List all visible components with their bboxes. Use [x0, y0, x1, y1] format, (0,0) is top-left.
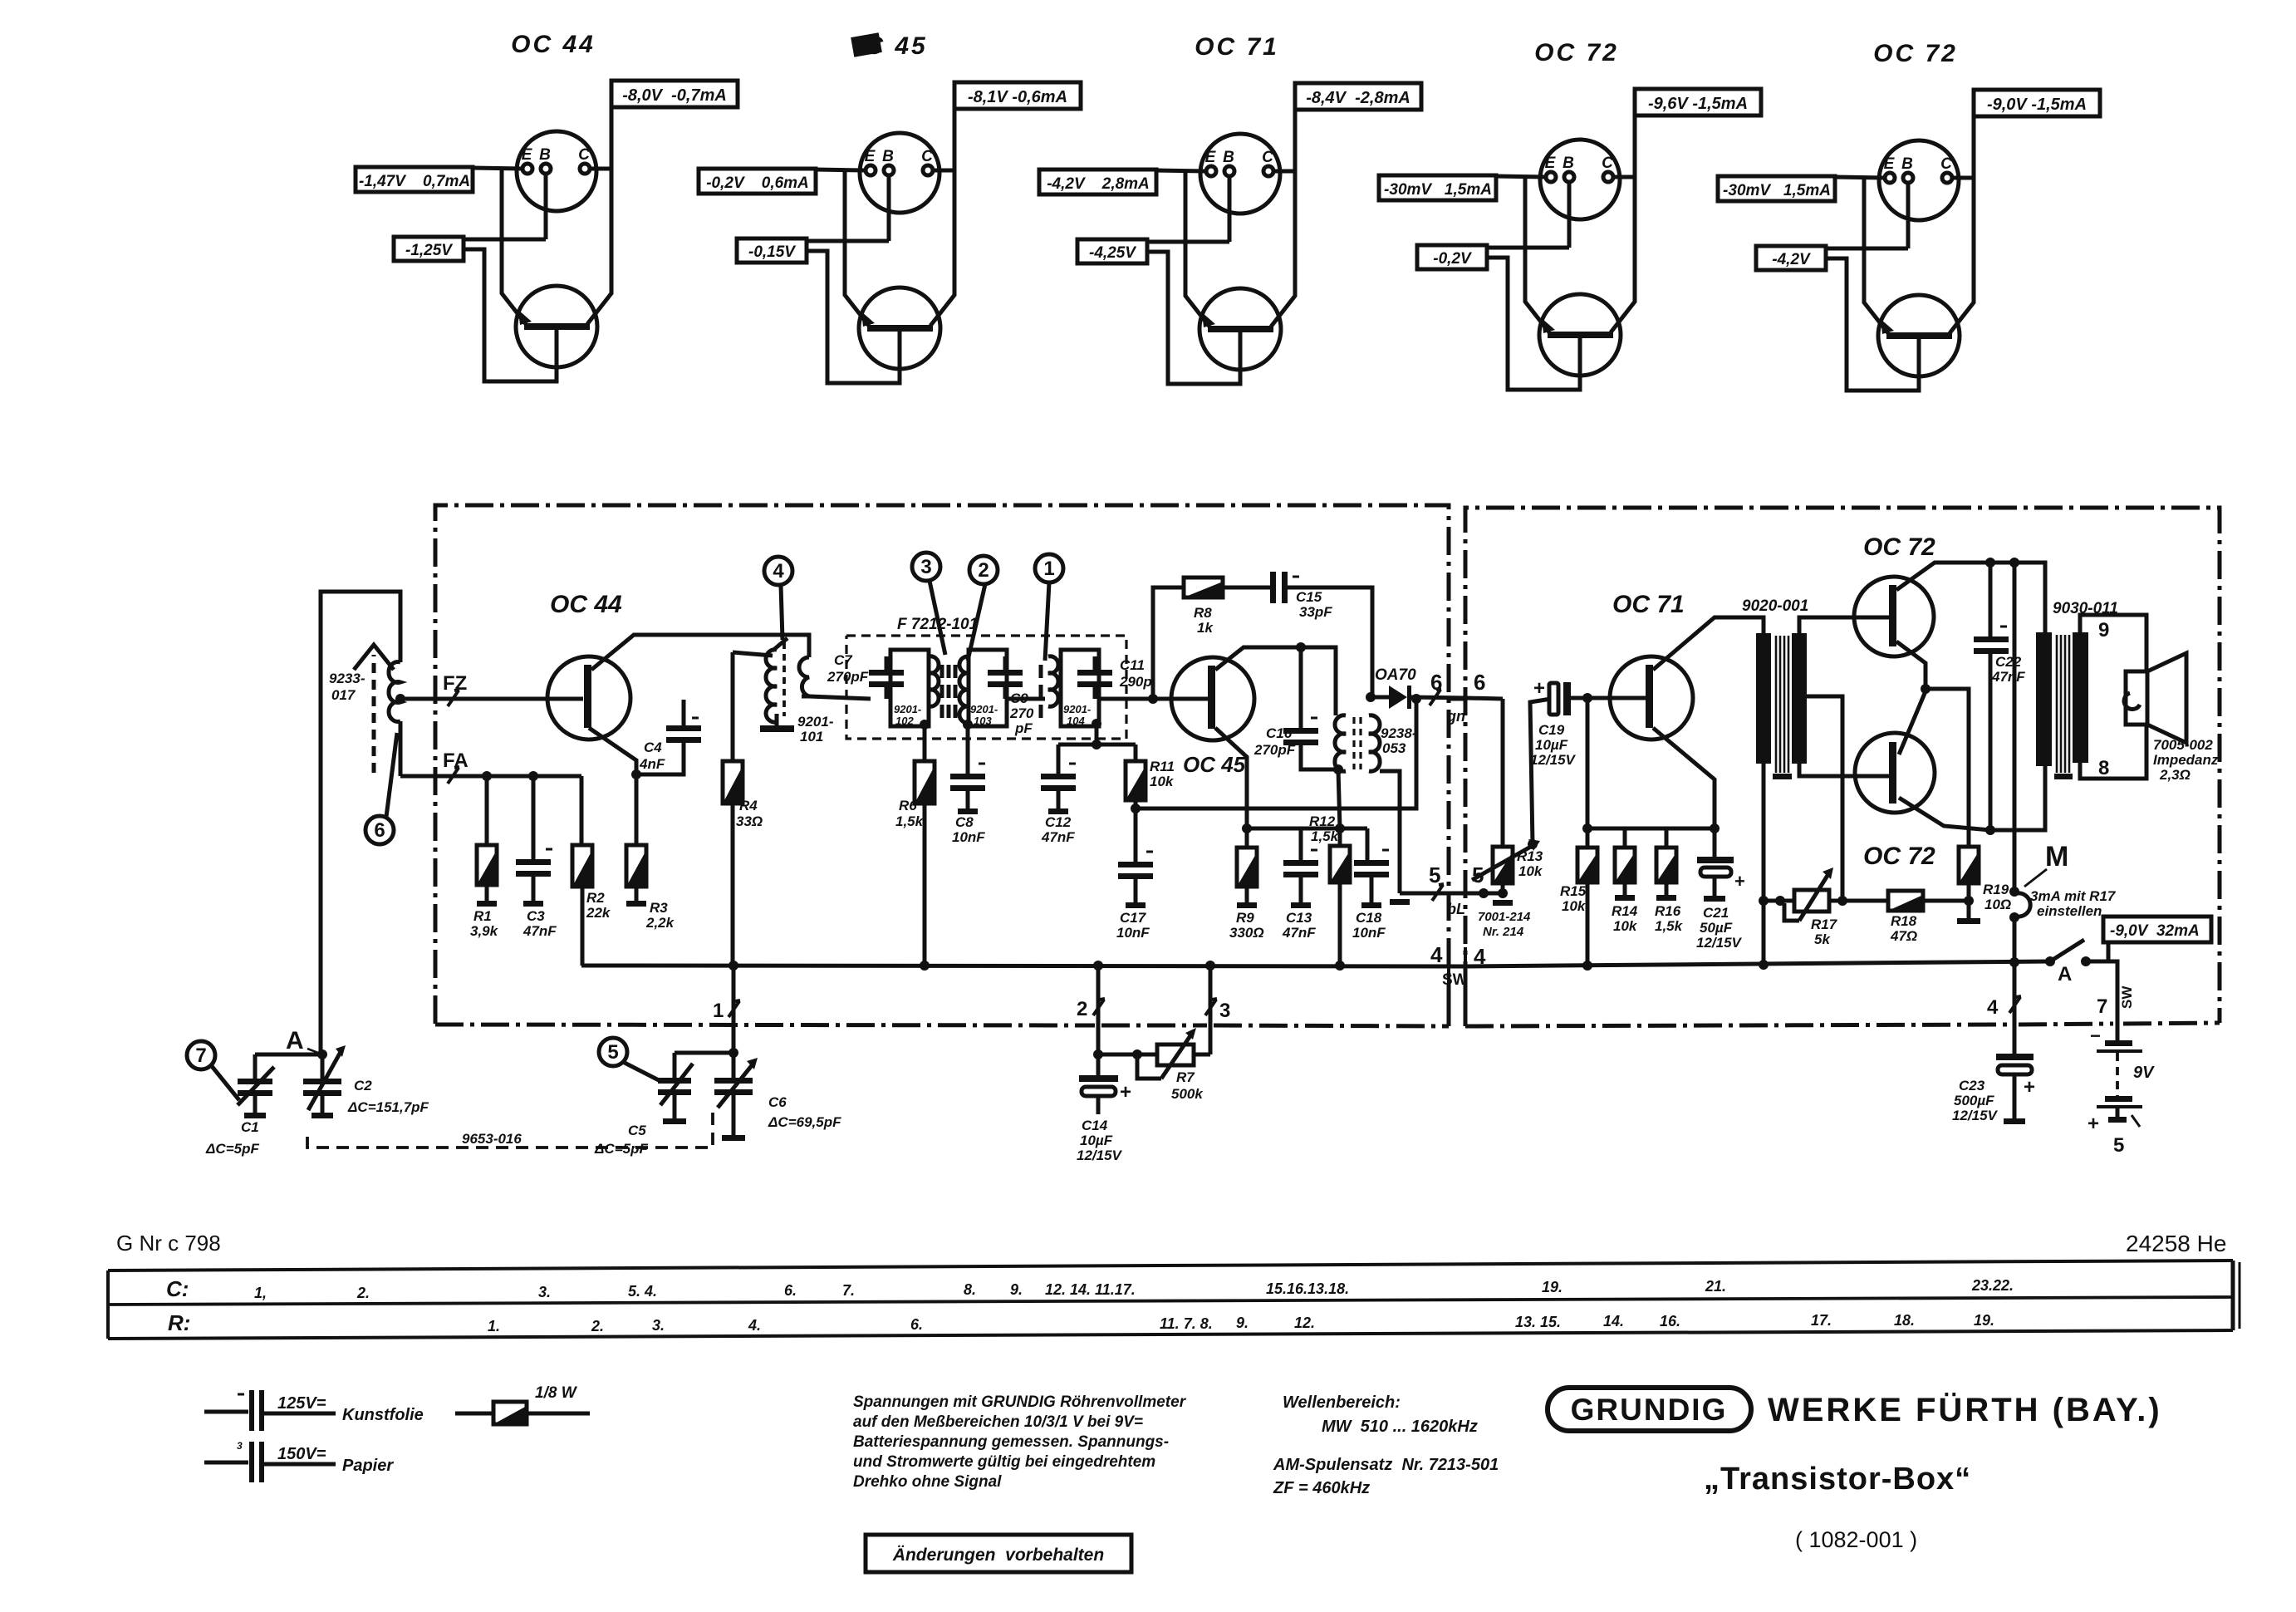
resistor R11 — [1126, 761, 1146, 800]
winding arcs right of core — [959, 656, 969, 723]
capacitor C1 — [238, 1079, 272, 1096]
measurement box -8,4V -2,8mA — [1295, 83, 1421, 110]
OC44 emitter wire — [589, 728, 636, 774]
svg-text:-30mV 1,5mA: -30mV 1,5mA — [1384, 181, 1492, 199]
wire left box to pin E — [816, 170, 866, 170]
svg-text:053: 053 — [1382, 740, 1406, 756]
measurement box -0,2V — [1417, 245, 1487, 269]
svg-text:1.: 1. — [488, 1318, 500, 1334]
svg-text:33pF: 33pF — [1299, 604, 1332, 620]
svg-text:C6: C6 — [768, 1094, 787, 1110]
svg-text:−: − — [2090, 1025, 2101, 1046]
svg-text:R3: R3 — [650, 900, 668, 916]
svg-text:ΔC=69,5pF: ΔC=69,5pF — [768, 1114, 841, 1130]
resistor R18 — [1888, 891, 1923, 911]
transistor OC72 (upper output) — [1854, 577, 1934, 656]
wire small box row to B — [807, 239, 889, 243]
svg-text:5: 5 — [2113, 1134, 2124, 1157]
svg-text:47nF: 47nF — [1282, 925, 1316, 941]
svg-text:10k: 10k — [1562, 898, 1587, 914]
measurement box -0,2V 0,6mA — [699, 169, 816, 194]
svg-text:C 45: C 45 — [865, 32, 927, 60]
callout circled 7 — [187, 1041, 215, 1069]
resistor R14 10k — [1623, 828, 1627, 848]
svg-text:1k: 1k — [1197, 620, 1214, 636]
wire left box to pin E — [473, 168, 522, 169]
svg-text:2,2k: 2,2k — [645, 915, 675, 931]
svg-text:GRUNDIG: GRUNDIG — [1571, 1393, 1728, 1427]
measurement box -4,25V — [1077, 239, 1147, 263]
svg-text:C: C — [1940, 155, 1952, 173]
svg-text:B: B — [539, 146, 551, 164]
speaker loop wires, terminals 9 and 8 — [2080, 615, 2146, 671]
junction under 9201-104 — [1092, 719, 1101, 729]
svg-text:C1: C1 — [241, 1119, 259, 1135]
svg-text:3.: 3. — [538, 1284, 551, 1300]
svg-text:9201-: 9201- — [1063, 703, 1091, 715]
svg-text:4.: 4. — [748, 1317, 761, 1334]
wire tee down from E wire — [1184, 170, 1188, 242]
svg-text:9.: 9. — [1010, 1281, 1023, 1298]
svg-text:125V=: 125V= — [277, 1394, 326, 1413]
svg-text:270pF: 270pF — [827, 669, 869, 685]
svg-text:4: 4 — [773, 560, 784, 582]
svg-text:4nF: 4nF — [639, 756, 665, 772]
capacitor C18 10nF — [1366, 828, 1370, 860]
svg-text:R18: R18 — [1891, 913, 1917, 929]
callout circled 6 — [365, 816, 394, 844]
svg-text:OC 45: OC 45 — [1183, 752, 1246, 777]
transistor OC45 — [1171, 657, 1254, 740]
right circuit box dash-dot border — [1465, 508, 2220, 1023]
svg-text:ZF = 460kHz: ZF = 460kHz — [1273, 1479, 1370, 1497]
transformer core dashes — [942, 665, 955, 718]
capacitor C17 — [1118, 862, 1153, 879]
svg-text:gn: gn — [1446, 708, 1465, 725]
svg-text:E: E — [1205, 149, 1217, 166]
resistor R4 33Ω — [731, 652, 735, 761]
svg-text:7: 7 — [195, 1044, 206, 1067]
svg-text:ΔC=5pF: ΔC=5pF — [205, 1141, 259, 1157]
svg-text:10µF: 10µF — [1080, 1133, 1113, 1148]
transistor socket (top view) — [1200, 134, 1280, 214]
measurement box -0,15V — [737, 238, 807, 263]
primary bottom to bus — [1762, 764, 1766, 966]
terminal 1 wire to tuning capacitor C6 — [732, 966, 736, 1053]
svg-text:9201-: 9201- — [797, 714, 834, 730]
svg-text:10nF: 10nF — [1116, 925, 1150, 941]
small polarity mark above C3 — [546, 848, 552, 851]
wire pin C to voltage box and down to transistor collector — [1613, 175, 1635, 179]
wire bias row — [1247, 827, 1367, 831]
capacitor C4 — [666, 725, 701, 743]
svg-text:6: 6 — [1474, 670, 1485, 695]
pin C — [1942, 173, 1952, 183]
OC72 upper emitter wire — [1896, 641, 1926, 689]
wire pin B down — [1567, 182, 1572, 248]
svg-text:270pF: 270pF — [1253, 742, 1296, 758]
wire from IF output to R11 — [1058, 743, 1136, 747]
svg-text:2.: 2. — [591, 1318, 604, 1334]
OC71 emitter wire — [1653, 728, 1715, 828]
pin C — [1603, 172, 1613, 182]
resistor R2 — [572, 845, 592, 887]
svg-text:C13: C13 — [1286, 910, 1312, 926]
svg-text:47nF: 47nF — [522, 923, 557, 939]
svg-text:3: 3 — [237, 1440, 243, 1452]
svg-text:C21: C21 — [1703, 905, 1729, 921]
callout circled 1 — [1035, 554, 1063, 582]
svg-text:C2: C2 — [354, 1078, 372, 1094]
svg-text:R12: R12 — [1309, 813, 1336, 829]
capacitor C16 270pF — [1299, 647, 1303, 728]
resistor R6 1,5k — [923, 726, 927, 761]
svg-text:2.: 2. — [356, 1285, 370, 1301]
svg-text:12.: 12. — [1294, 1315, 1315, 1331]
svg-text:+: + — [2024, 1076, 2035, 1098]
transistor symbol OC 44 (side view) — [516, 286, 597, 367]
node A junction — [317, 1049, 327, 1059]
svg-text:C: C — [921, 148, 933, 165]
ground bar of coil — [775, 714, 779, 725]
svg-text:500µF: 500µF — [1954, 1093, 1994, 1108]
wire between IF sections — [1007, 697, 1045, 701]
svg-text:OC 72: OC 72 — [1863, 533, 1935, 561]
transistor test diagram T4 OC 72 — [1379, 39, 1761, 390]
emitter arrowhead — [1881, 319, 1894, 334]
svg-text:10nF: 10nF — [1352, 925, 1386, 941]
svg-text:7001-214: 7001-214 — [1478, 910, 1531, 924]
svg-text:OC 72: OC 72 — [1873, 40, 1958, 67]
svg-text:24258 He: 24258 He — [2126, 1231, 2226, 1256]
resistor R12 — [1330, 846, 1350, 882]
svg-text:18.: 18. — [1894, 1312, 1915, 1329]
AGC wire R11 to diode — [1136, 699, 1416, 808]
wire tee down from E wire — [843, 170, 847, 241]
svg-text:9: 9 — [2098, 619, 2109, 641]
svg-text:C15: C15 — [1296, 589, 1322, 605]
callout circled 2 — [969, 556, 998, 584]
diode OA70 — [1369, 695, 1389, 700]
capacitor C22 — [1974, 636, 2009, 654]
resistor R9 — [1237, 848, 1257, 887]
pin B — [1564, 172, 1574, 182]
pin B — [884, 165, 894, 175]
svg-text:330Ω: 330Ω — [1229, 925, 1264, 941]
capacitor C23 500µF electrolytic — [1996, 1054, 2034, 1060]
wire pin B down — [544, 174, 548, 239]
svg-text:-4,25V: -4,25V — [1089, 244, 1136, 262]
svg-text:3: 3 — [920, 556, 931, 578]
resistor R11 10k — [1134, 745, 1138, 761]
svg-text:7.: 7. — [842, 1282, 855, 1299]
lower OC72 collector join — [1899, 691, 1926, 754]
svg-text:C18: C18 — [1356, 910, 1382, 926]
pin B — [1903, 173, 1913, 183]
svg-text:7: 7 — [2097, 995, 2107, 1018]
wire pin C to voltage box and down to transistor collector — [1273, 170, 1295, 174]
svg-text:1/8 W: 1/8 W — [535, 1384, 578, 1402]
svg-text:C16: C16 — [1266, 725, 1293, 741]
svg-text:R6: R6 — [899, 798, 917, 813]
R4 tap wire — [733, 652, 773, 656]
wire pin C to voltage box and down to transistor collector — [590, 167, 611, 171]
wire pin B down — [1906, 183, 1911, 248]
svg-text:6: 6 — [374, 819, 385, 842]
node 4 ticks across divider — [1447, 947, 1450, 985]
transistor test diagram T5 OC 72 — [1718, 40, 2100, 391]
svg-text:9201-: 9201- — [970, 703, 998, 715]
svg-text:017: 017 — [331, 687, 356, 703]
capacitor C13 47nF — [1299, 828, 1303, 860]
capacitor C12 — [1041, 774, 1076, 791]
capacitor C14 10µF electrolytic — [1096, 1054, 1101, 1077]
svg-text:C11: C11 — [1120, 657, 1145, 673]
svg-text:A: A — [2058, 963, 2072, 985]
svg-text:5. 4.: 5. 4. — [628, 1283, 657, 1300]
svg-text:10nF: 10nF — [952, 829, 985, 845]
resistor R19 — [1959, 847, 1979, 883]
svg-text:B: B — [1563, 155, 1574, 172]
pin E — [866, 165, 876, 175]
svg-text:-0,2V: -0,2V — [1433, 250, 1472, 268]
svg-text:5k: 5k — [1814, 931, 1831, 947]
emitter arrowhead — [518, 310, 532, 325]
svg-text:6: 6 — [1430, 670, 1442, 695]
capacitor C3 47nF branch — [532, 776, 536, 859]
OC72 lower emitter wire — [1899, 798, 1990, 830]
svg-text:12/15V: 12/15V — [1952, 1108, 1999, 1123]
svg-text:R:: R: — [168, 1310, 190, 1335]
resistor R6 — [915, 761, 935, 804]
svg-text:R15: R15 — [1560, 883, 1587, 899]
coil slash tuning mark — [773, 638, 787, 651]
svg-text:B: B — [1901, 155, 1913, 173]
svg-text:OC 72: OC 72 — [1534, 39, 1619, 66]
wire pin C to voltage box and down to transistor collector — [933, 169, 954, 173]
legend capacitor Papier — [204, 1461, 248, 1465]
oscillator coil 9201-101 — [766, 650, 777, 722]
svg-text:Spannungen mit GRUNDIG Röhrenv: Spannungen mit GRUNDIG Röhrenvollmeter — [853, 1393, 1187, 1411]
variable trimmer C1 — [255, 1053, 322, 1057]
svg-text:Kunstfolie: Kunstfolie — [342, 1406, 424, 1424]
resistor R3 — [626, 845, 646, 887]
resistor R8 — [1184, 577, 1223, 597]
resistor R13 — [1493, 847, 1513, 883]
svg-text:OC 44: OC 44 — [511, 31, 596, 58]
svg-text:-8,1V -0,6mA: -8,1V -0,6mA — [968, 88, 1067, 106]
svg-text:19.: 19. — [1974, 1312, 1994, 1329]
ferrite antenna coil 9233-017 — [321, 592, 400, 1051]
transistor socket (top view) — [1540, 140, 1620, 219]
svg-text:6.: 6. — [910, 1316, 923, 1333]
svg-text:4: 4 — [1430, 942, 1443, 967]
measurement box -30mV 1,5mA — [1379, 175, 1496, 200]
pin E — [1206, 166, 1216, 176]
wire left box to pin E — [1156, 170, 1206, 171]
svg-text:R14: R14 — [1612, 903, 1638, 919]
emitter arrowhead — [1202, 312, 1215, 327]
measuring point M 3mA — [2013, 563, 2017, 890]
svg-text:-4,2V 2,8mA: -4,2V 2,8mA — [1047, 175, 1150, 193]
svg-text:M: M — [2045, 841, 2068, 872]
potentiometer R13 10k (volume) — [1501, 699, 1505, 847]
svg-text:Änderungen vorbehalten: Änderungen vorbehalten — [892, 1546, 1104, 1565]
svg-text:+: + — [2087, 1113, 2099, 1135]
svg-text:9201-: 9201- — [894, 703, 921, 715]
transistor socket (top view) — [1879, 140, 1959, 220]
svg-text:und Stromwerte gültig bei eing: und Stromwerte gültig bei eingedrehtem — [853, 1453, 1155, 1471]
capacitor C3 — [516, 859, 551, 877]
svg-text:-1,47V 0,7mA: -1,47V 0,7mA — [359, 173, 470, 190]
svg-text:C: C — [1262, 149, 1273, 166]
svg-text:14.: 14. — [1603, 1313, 1624, 1329]
svg-text:13. 15.: 13. 15. — [1515, 1314, 1561, 1330]
svg-text:10k: 10k — [1613, 918, 1638, 934]
svg-text:FA: FA — [443, 749, 469, 772]
IF transformer winding 9201-103 — [969, 650, 1007, 726]
svg-text:12. 14. 11.17.: 12. 14. 11.17. — [1045, 1281, 1136, 1298]
OC72 upper collector wire — [1896, 563, 2045, 632]
svg-text:1,5k: 1,5k — [895, 813, 925, 829]
capacitor C7 — [869, 670, 904, 687]
node FZ wire — [395, 694, 405, 704]
wire small box row to B — [1487, 246, 1569, 250]
variable capacitor C6 — [732, 1053, 736, 1078]
svg-text:C3: C3 — [527, 908, 545, 924]
svg-text:10µF: 10µF — [1535, 737, 1568, 753]
svg-text:270: 270 — [1009, 705, 1034, 721]
base lead and return wire — [1487, 258, 1580, 390]
wire node 6 into right box — [1449, 697, 1465, 701]
second IF core dashes — [1039, 665, 1043, 718]
pin C — [1263, 166, 1273, 176]
svg-text:8: 8 — [2098, 757, 2109, 779]
wire small box row to B — [1826, 247, 1908, 251]
svg-text:-8,4V -2,8mA: -8,4V -2,8mA — [1306, 89, 1410, 107]
OC44 collector wire to oscillator coil — [591, 635, 809, 670]
svg-text:E: E — [1884, 155, 1896, 173]
svg-text:3: 3 — [1219, 1000, 1230, 1022]
terminal 3 wire to R7 — [1209, 966, 1213, 1054]
measurement box -8,0V -0,7mA — [611, 81, 738, 107]
IF secondary to node 5 — [1380, 771, 1400, 893]
svg-text:-0,15V: -0,15V — [748, 243, 796, 261]
svg-text:einstellen: einstellen — [2037, 903, 2102, 919]
svg-text:104: 104 — [1067, 715, 1085, 727]
resistor R9 330Ω — [1245, 828, 1249, 848]
svg-text:-4,2V: -4,2V — [1772, 251, 1811, 268]
svg-text:R9: R9 — [1236, 910, 1254, 926]
svg-text:2: 2 — [1077, 998, 1087, 1020]
resistor R1 — [477, 845, 497, 885]
svg-text:47nF: 47nF — [1041, 829, 1075, 845]
antenna dashed tuning arrow — [372, 655, 376, 773]
IF transformer 9238-053 — [1335, 715, 1346, 771]
resistor R4 — [723, 761, 743, 804]
svg-text:R8: R8 — [1194, 605, 1212, 621]
svg-text:3,9k: 3,9k — [470, 923, 499, 939]
svg-text:1,5k: 1,5k — [1655, 918, 1684, 934]
svg-text:FZ: FZ — [443, 672, 467, 695]
wire small box row to B — [464, 238, 546, 242]
svg-text:-9,6V -1,5mA: -9,6V -1,5mA — [1648, 95, 1748, 113]
pin E — [1885, 173, 1895, 183]
resistor R3 2,2k branch — [635, 774, 639, 845]
transistor symbol OC 72 (side view) — [1539, 294, 1621, 376]
svg-text:ΔC=151,7pF: ΔC=151,7pF — [347, 1099, 429, 1115]
battery 9V — [2105, 1040, 2132, 1046]
dashed gang coupling 9653-016 — [307, 1112, 713, 1148]
potentiometer R17 5k — [1764, 899, 1794, 903]
transistor test diagram T3 OC 71 — [1039, 33, 1421, 384]
svg-text:C4: C4 — [644, 740, 662, 755]
wire pin C to voltage box and down to transistor collector — [1952, 176, 1974, 180]
junction dots under IF windings — [920, 720, 930, 730]
emitter arrowhead — [1542, 318, 1555, 333]
svg-text:-8,0V -0,7mA: -8,0V -0,7mA — [622, 86, 727, 105]
capacitor C18 — [1354, 860, 1389, 877]
IF transformer winding 9201-102 — [890, 650, 929, 726]
pin E — [522, 164, 532, 174]
svg-text:11. 7. 8.: 11. 7. 8. — [1160, 1315, 1213, 1332]
bias row wire — [1586, 698, 1590, 828]
capacitor C16 — [1283, 728, 1318, 745]
svg-text:1,5k: 1,5k — [1311, 828, 1340, 844]
svg-text:C8: C8 — [955, 814, 974, 830]
svg-text:3.: 3. — [652, 1317, 665, 1334]
measurement box -9,6V -1,5mA — [1635, 89, 1761, 115]
variable capacitor C2 — [321, 1054, 325, 1079]
svg-text:C12: C12 — [1045, 814, 1072, 830]
svg-text:Papier: Papier — [342, 1457, 394, 1475]
ground bus wire (right box) — [1465, 961, 2050, 966]
svg-text:E: E — [522, 146, 533, 164]
svg-text:9653-016: 9653-016 — [462, 1131, 522, 1147]
wire oscillator coil to IF transformer — [802, 695, 809, 699]
measurement box -9,0V -1,5mA — [1974, 90, 2100, 116]
svg-text:C5: C5 — [628, 1123, 646, 1138]
svg-text:1: 1 — [713, 1000, 724, 1022]
node FA wire — [400, 774, 581, 779]
svg-text:C19: C19 — [1538, 722, 1565, 738]
resistor R2 22k branch — [580, 776, 584, 845]
svg-text:„Transistor-Box“: „Transistor-Box“ — [1704, 1462, 1971, 1497]
svg-text:+: + — [1533, 677, 1545, 700]
capacitor C21 50µF electrolytic — [1713, 828, 1717, 858]
OC45 emitter wire — [1215, 728, 1247, 828]
svg-text:22k: 22k — [586, 905, 611, 921]
svg-text:16.: 16. — [1660, 1313, 1680, 1329]
svg-text:C17: C17 — [1120, 910, 1147, 926]
svg-text:4: 4 — [1987, 996, 1999, 1019]
wire left box to pin E — [1496, 176, 1546, 177]
svg-text:Batteriespannung gemessen. Spa: Batteriespannung gemessen. Spannungs- — [853, 1433, 1169, 1451]
svg-text:12/15V: 12/15V — [1077, 1148, 1123, 1163]
wire emitter side down — [845, 241, 869, 326]
capacitor C2 — [303, 1079, 341, 1096]
svg-text:Impedanz: Impedanz — [2153, 752, 2219, 768]
measurement box -8,1V -0,6mA — [954, 82, 1081, 109]
wire tee down from E wire — [500, 168, 504, 239]
parts position strip outline — [108, 1261, 2233, 1270]
transistor OC71 — [1610, 656, 1693, 740]
wire emitter side down — [1864, 248, 1888, 333]
measurement box -1,25V — [394, 237, 464, 261]
wire pin B down — [887, 175, 891, 241]
svg-text:2,3Ω: 2,3Ω — [2159, 767, 2191, 783]
legend resistor 1/8 W — [455, 1412, 493, 1416]
